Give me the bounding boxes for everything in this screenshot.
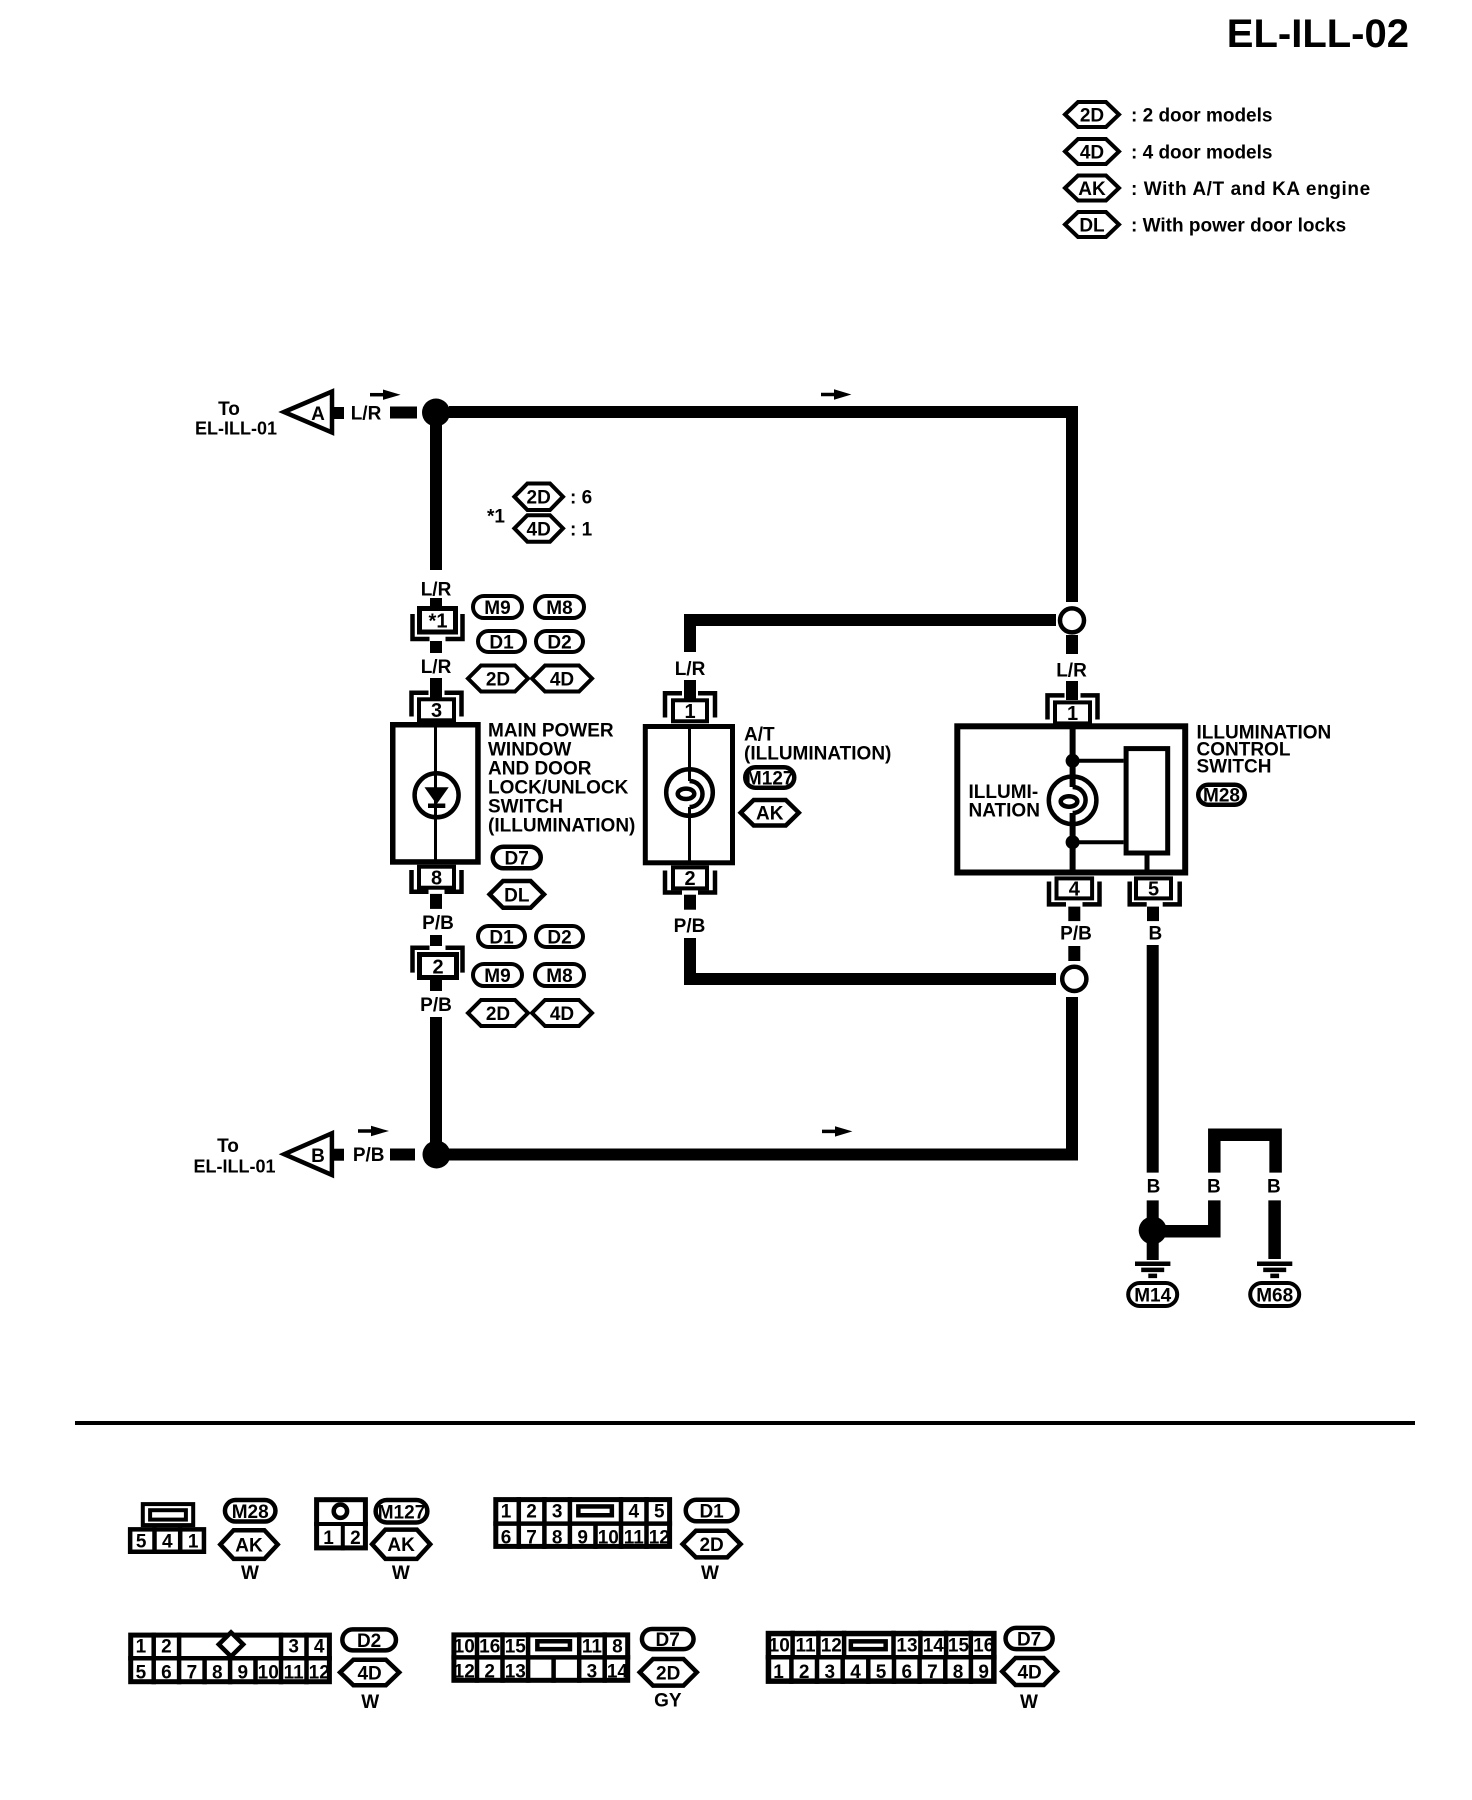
arrow bottom left — [358, 1129, 374, 1133]
svg-text:8: 8 — [431, 868, 442, 890]
svg-text:9: 9 — [238, 1663, 249, 1684]
ICS pin 1 — [1055, 702, 1090, 723]
svg-text:2: 2 — [484, 1662, 495, 1683]
wire ground junction to ground symbol — [1147, 1243, 1159, 1260]
ICS pin 5 bracket — [1130, 882, 1180, 905]
tag oval M8 lower — [535, 964, 584, 986]
tag oval M127 face — [376, 1500, 428, 1522]
A/T pin 2 — [673, 867, 707, 888]
A/T pin 1 bracket — [665, 693, 715, 717]
wire stub below A/T pin 2 — [684, 895, 696, 910]
svg-text:2D: 2D — [699, 1535, 723, 1556]
svg-text:13: 13 — [505, 1662, 526, 1683]
tag hexagon 2D lower — [468, 1000, 528, 1026]
svg-text:1: 1 — [773, 1662, 784, 1683]
svg-text:15: 15 — [948, 1636, 970, 1657]
lamp symbol ICS filament — [1073, 787, 1086, 813]
svg-text:8: 8 — [212, 1663, 223, 1684]
svg-text:4D: 4D — [357, 1663, 381, 1684]
svg-text:MAIN POWER: MAIN POWER — [488, 720, 614, 741]
svg-text:5: 5 — [136, 1532, 147, 1553]
tag hexagon AK face1 — [220, 1530, 277, 1559]
node open circle bottom P/B — [1062, 967, 1086, 991]
svg-text:AK: AK — [1078, 179, 1106, 200]
wire from connector 2 to bottom bus — [430, 1017, 442, 1148]
wire n-shape top — [1214, 1135, 1275, 1173]
node junction dot top left — [422, 399, 450, 427]
svg-text:10: 10 — [598, 1528, 619, 1549]
diode symbol — [415, 773, 459, 817]
svg-text:GY: GY — [654, 1691, 682, 1712]
tag oval D2 lower — [536, 926, 583, 947]
lamp symbol ICS circle — [1049, 777, 1097, 825]
svg-text:M28: M28 — [1203, 786, 1240, 807]
svg-text:M28: M28 — [232, 1502, 269, 1523]
lamp symbol A/T — [666, 769, 713, 816]
tag oval D2 face — [342, 1629, 396, 1650]
arrow top left — [370, 393, 386, 397]
svg-text:11: 11 — [284, 1663, 305, 1684]
svg-text:AK: AK — [756, 804, 784, 825]
svg-text:W: W — [701, 1563, 719, 1584]
svg-text:16: 16 — [479, 1637, 500, 1658]
svg-text:2D: 2D — [1080, 106, 1104, 127]
pin 8 bracket — [412, 870, 462, 892]
svg-text:4D: 4D — [550, 670, 574, 691]
svg-text:A: A — [311, 404, 325, 425]
svg-text:4: 4 — [629, 1502, 640, 1523]
A/T illumination component — [645, 727, 732, 863]
svg-text:D7: D7 — [505, 849, 529, 870]
tag oval M9 lower — [473, 964, 522, 986]
connector *1 wire stub bottom — [430, 641, 442, 653]
ground symbol M68 — [1257, 1264, 1292, 1276]
wire dash before junction — [390, 407, 417, 419]
arrow top middle — [821, 393, 837, 397]
svg-text:3: 3 — [587, 1662, 598, 1683]
svg-text:AND DOOR: AND DOOR — [488, 758, 592, 779]
svg-text:W: W — [1020, 1692, 1038, 1713]
svg-text:10: 10 — [454, 1637, 475, 1658]
svg-text:8: 8 — [552, 1528, 563, 1549]
svg-text:EL-ILL-02: EL-ILL-02 — [1227, 12, 1409, 56]
svg-text:6: 6 — [902, 1662, 913, 1683]
wire stub below pin 8 — [430, 894, 442, 909]
svg-text:10: 10 — [769, 1636, 790, 1657]
tag hexagon 4D face — [340, 1660, 399, 1686]
svg-text:D2: D2 — [357, 1631, 381, 1652]
wire stub below connector 2 — [430, 980, 442, 991]
svg-text:B: B — [1149, 924, 1163, 945]
A/T pin 2 bracket — [665, 871, 715, 893]
svg-text:P/B: P/B — [420, 995, 452, 1016]
svg-text:B: B — [1147, 1177, 1161, 1198]
svg-text:M127: M127 — [378, 1503, 426, 1524]
svg-text:M14: M14 — [1134, 1286, 1171, 1307]
svg-text:5: 5 — [1148, 879, 1159, 901]
ICS pin 1 bracket — [1048, 695, 1098, 719]
wire dash before bottom junction — [390, 1149, 415, 1161]
svg-text:13: 13 — [896, 1636, 917, 1657]
svg-text:6: 6 — [501, 1528, 512, 1549]
wire stub below ICS pin 5 — [1147, 907, 1159, 922]
svg-text:1: 1 — [188, 1532, 199, 1553]
legend hexagon AK — [1065, 176, 1119, 201]
wire stub after triangle A — [333, 407, 344, 419]
connector 2 — [420, 955, 457, 978]
tag oval D7 face1 — [642, 1629, 694, 1649]
svg-text:12: 12 — [309, 1663, 330, 1684]
svg-text:6: 6 — [161, 1663, 172, 1684]
svg-text:D1: D1 — [489, 633, 514, 654]
illumination control switch component — [957, 726, 1185, 872]
wire bottom bus P/B — [449, 1149, 1066, 1161]
svg-text:2: 2 — [432, 957, 443, 979]
tag hexagon 4D lower — [532, 1000, 592, 1026]
wire bottom bus right corner up — [1066, 997, 1078, 1161]
tag oval M28 face — [225, 1500, 276, 1522]
svg-text:LOCK/UNLOCK: LOCK/UNLOCK — [488, 777, 629, 798]
tag oval D1 lower — [478, 926, 525, 947]
svg-text:14: 14 — [923, 1636, 945, 1657]
node junction dot bottom left — [423, 1141, 451, 1169]
connector *1 — [420, 609, 456, 633]
svg-text:SWITCH: SWITCH — [1197, 757, 1272, 778]
svg-text:1: 1 — [136, 1637, 147, 1658]
internal wire A/T upper — [688, 726, 691, 781]
ICS internal junction dot lower — [1066, 835, 1080, 849]
page connector triangle B — [284, 1133, 332, 1175]
ICS pin 4 bracket — [1049, 882, 1100, 905]
svg-text:16: 16 — [973, 1636, 994, 1657]
svg-text:14: 14 — [607, 1662, 629, 1683]
legend hexagon 4D — [1065, 139, 1119, 164]
wire middle leg lower stub — [1208, 1200, 1221, 1237]
svg-text:9: 9 — [577, 1528, 588, 1549]
wire top bus right corner down — [1066, 406, 1078, 602]
svg-text:*1: *1 — [487, 507, 505, 528]
tag oval D2 upper — [536, 631, 583, 652]
svg-text:10: 10 — [258, 1663, 279, 1684]
connector face M127 — [314, 1500, 368, 1551]
svg-text:11: 11 — [795, 1636, 816, 1657]
svg-text:L/R: L/R — [1056, 661, 1087, 682]
wire stub into ICS pin 1 — [1066, 681, 1078, 700]
ICS internal link upper — [1073, 759, 1124, 763]
tag hexagon 2D face2 — [640, 1659, 697, 1686]
tag oval D7 — [493, 847, 541, 869]
svg-text:M127: M127 — [746, 769, 794, 790]
svg-text:To: To — [217, 1136, 239, 1157]
ICS rheostat to pin 5 wire — [1145, 856, 1150, 875]
svg-text:NATION: NATION — [969, 801, 1040, 822]
svg-text:A/T: A/T — [744, 725, 775, 746]
svg-text:1: 1 — [1067, 703, 1078, 725]
svg-text:W: W — [361, 1692, 379, 1713]
main power window switch component U-left — [393, 725, 478, 862]
connector face D7 4D — [766, 1631, 997, 1684]
wire A/T feed from node — [690, 620, 1056, 652]
svg-text:11: 11 — [624, 1528, 645, 1549]
svg-text:M9: M9 — [484, 966, 510, 987]
wire stub below open circle top — [1066, 635, 1078, 654]
svg-text:9: 9 — [978, 1662, 989, 1683]
pin 8 — [419, 867, 454, 888]
ground symbol M14 — [1135, 1264, 1170, 1276]
svg-text:3: 3 — [552, 1502, 563, 1523]
svg-text:2: 2 — [350, 1528, 361, 1549]
wire stub after triangle B — [334, 1149, 344, 1161]
svg-text:EL-ILL-01: EL-ILL-01 — [194, 1157, 276, 1177]
svg-text:2: 2 — [799, 1662, 810, 1683]
svg-text:AK: AK — [387, 1535, 415, 1556]
arrow bottom middle — [822, 1130, 838, 1134]
legend hexagon 2D — [1065, 102, 1119, 127]
tag oval M127 — [745, 767, 794, 788]
svg-text:2D: 2D — [486, 670, 510, 691]
svg-text:1: 1 — [501, 1502, 512, 1523]
svg-text:: With power door locks: : With power door locks — [1131, 216, 1346, 237]
svg-text:D7: D7 — [656, 1630, 680, 1651]
svg-text:W: W — [392, 1563, 410, 1584]
svg-text:DL: DL — [1079, 216, 1105, 237]
svg-text:D7: D7 — [1017, 1630, 1041, 1651]
legend hexagon DL — [1065, 212, 1119, 237]
ICS internal junction dot upper — [1066, 754, 1080, 768]
ICS internal wire upper — [1070, 726, 1076, 787]
svg-text:: 2 door models: : 2 door models — [1131, 106, 1272, 127]
svg-text:B: B — [1267, 1177, 1281, 1198]
svg-text:SWITCH: SWITCH — [488, 796, 563, 817]
tag hexagon 4D face2 — [1002, 1658, 1057, 1685]
svg-text:D1: D1 — [699, 1502, 724, 1523]
svg-text:B: B — [311, 1146, 325, 1167]
svg-text:M8: M8 — [546, 966, 572, 987]
svg-text:: 6: : 6 — [570, 488, 592, 509]
svg-text:2: 2 — [526, 1502, 537, 1523]
svg-text:3: 3 — [288, 1637, 299, 1658]
svg-text:2: 2 — [684, 868, 695, 890]
wire A/T pin2 to open circle — [690, 938, 1056, 979]
connector *1 wire stub top — [430, 598, 442, 608]
svg-text:4: 4 — [850, 1662, 861, 1683]
wire stub above connector 2 — [430, 935, 442, 946]
svg-text:M8: M8 — [546, 598, 572, 619]
tag oval M8 — [535, 596, 584, 618]
svg-text:: 1: : 1 — [570, 519, 593, 540]
connector face D7 2D — [451, 1632, 630, 1682]
svg-text:: 4 door models: : 4 door models — [1131, 143, 1272, 164]
svg-text:To: To — [218, 399, 240, 420]
svg-text:4: 4 — [162, 1532, 173, 1553]
svg-text:2: 2 — [161, 1637, 172, 1658]
svg-text:D1: D1 — [489, 928, 514, 949]
svg-text:8: 8 — [612, 1637, 623, 1658]
ICS internal wire lower — [1070, 813, 1076, 873]
connector face M28 — [130, 1504, 204, 1554]
pin 3 — [419, 699, 454, 720]
A/T pin 1 — [673, 700, 707, 721]
svg-text:: With A/T and KA engine: : With A/T and KA engine — [1131, 179, 1371, 200]
svg-text:2D: 2D — [656, 1663, 680, 1684]
svg-text:4: 4 — [1069, 879, 1081, 901]
svg-text:W: W — [241, 1563, 259, 1584]
svg-text:7: 7 — [187, 1663, 198, 1684]
svg-text:12: 12 — [454, 1662, 475, 1683]
tag hexagon 2D face — [683, 1531, 741, 1558]
ICS pin 4 — [1057, 878, 1093, 898]
svg-text:4D: 4D — [527, 519, 551, 540]
svg-text:L/R: L/R — [675, 659, 706, 680]
tag hexagon 2D upper — [468, 666, 528, 692]
svg-text:5: 5 — [876, 1662, 887, 1683]
svg-text:L/R: L/R — [421, 657, 452, 678]
svg-text:4D: 4D — [550, 1004, 574, 1025]
svg-text:4D: 4D — [1080, 143, 1104, 164]
svg-text:M68: M68 — [1256, 1286, 1293, 1307]
svg-text:1: 1 — [684, 701, 695, 723]
svg-text:D2: D2 — [547, 928, 571, 949]
svg-text:(ILLUMINATION): (ILLUMINATION) — [488, 815, 635, 836]
svg-text:DL: DL — [504, 885, 530, 906]
node open circle top L/R — [1060, 608, 1084, 632]
svg-text:EL-ILL-01: EL-ILL-01 — [195, 419, 277, 439]
connector face D2 — [128, 1632, 332, 1684]
page connector triangle A — [284, 392, 332, 433]
wire vertical from top junction — [430, 419, 442, 570]
svg-text:5: 5 — [136, 1663, 147, 1684]
svg-text:12: 12 — [649, 1528, 670, 1549]
svg-text:2D: 2D — [486, 1004, 510, 1025]
tag hexagon 4D upper — [532, 666, 592, 692]
note hexagon 4D — [514, 515, 563, 542]
svg-text:3: 3 — [825, 1662, 836, 1683]
tag oval M9 — [473, 596, 522, 618]
svg-text:3: 3 — [431, 700, 442, 722]
svg-text:8: 8 — [953, 1662, 964, 1683]
svg-text:7: 7 — [927, 1662, 938, 1683]
svg-text:1: 1 — [323, 1528, 334, 1549]
tag oval D7 face2 — [1006, 1628, 1053, 1649]
pin 3 bracket — [412, 693, 462, 717]
tag oval M68 — [1250, 1283, 1299, 1306]
ICS rheostat rectangle — [1126, 749, 1168, 853]
tag oval D1 face — [686, 1500, 738, 1522]
svg-text:L/R: L/R — [351, 404, 382, 425]
svg-text:P/B: P/B — [422, 913, 454, 934]
svg-text:4: 4 — [314, 1637, 325, 1658]
svg-text:15: 15 — [505, 1637, 527, 1658]
svg-text:P/B: P/B — [353, 1145, 385, 1166]
wire top bus L/R — [449, 406, 1066, 418]
svg-text:4D: 4D — [1017, 1663, 1041, 1684]
svg-text:WINDOW: WINDOW — [488, 739, 571, 760]
tag hexagon DL — [490, 881, 544, 908]
svg-text:11: 11 — [582, 1637, 603, 1658]
wire ICS pin 5 down — [1147, 945, 1159, 1173]
svg-text:7: 7 — [526, 1528, 537, 1549]
ICS internal link lower — [1073, 840, 1124, 844]
internal wire left component — [434, 724, 437, 863]
note hexagon 2D — [514, 484, 563, 511]
wire stub into A/T pin 1 — [684, 680, 696, 699]
svg-text:2D: 2D — [527, 488, 551, 509]
wire stub above ground junction — [1147, 1200, 1159, 1218]
svg-text:*1: *1 — [429, 611, 448, 633]
tag hexagon AK face2 — [372, 1530, 430, 1559]
svg-text:AK: AK — [235, 1536, 263, 1557]
wire stub into pin 3 — [430, 678, 442, 698]
svg-text:5: 5 — [654, 1502, 665, 1523]
svg-text:12: 12 — [821, 1636, 842, 1657]
svg-text:P/B: P/B — [1060, 924, 1092, 945]
wire stub below ICS pin 4 — [1068, 907, 1080, 922]
svg-text:B: B — [1207, 1177, 1221, 1198]
svg-text:P/B: P/B — [674, 916, 706, 937]
divider line — [75, 1421, 1415, 1425]
internal wire A/T lower — [688, 807, 691, 864]
svg-text:(ILLUMINATION): (ILLUMINATION) — [744, 744, 891, 765]
svg-text:D2: D2 — [547, 633, 571, 654]
connector 2 bracket — [413, 948, 463, 973]
ICS pin 5 — [1136, 878, 1171, 898]
wire right leg to ground — [1268, 1200, 1281, 1259]
tag oval M14 — [1128, 1283, 1177, 1306]
wire ground junction to middle leg — [1160, 1225, 1221, 1238]
node ground junction dot — [1139, 1216, 1167, 1244]
svg-text:L/R: L/R — [421, 580, 452, 601]
svg-text:M9: M9 — [484, 598, 510, 619]
wire ICS pin 4 down to open circle — [1068, 946, 1080, 961]
tag oval D1 upper — [478, 631, 525, 652]
tag oval M28 — [1198, 785, 1245, 805]
connector face D1 — [493, 1497, 672, 1549]
tag hexagon AK — [741, 800, 799, 826]
